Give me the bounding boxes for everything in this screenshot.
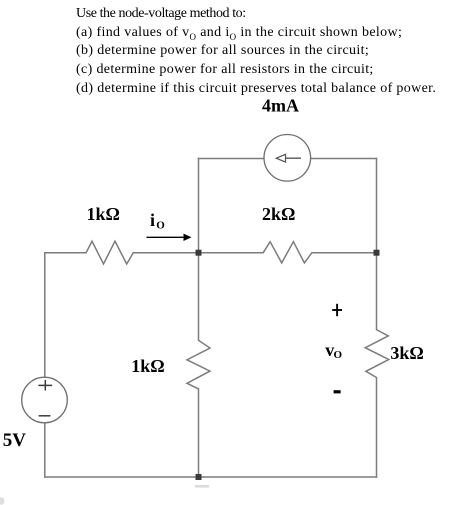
svg-text:2kΩ: 2kΩ: [262, 204, 295, 224]
svg-text:4mA: 4mA: [262, 95, 299, 115]
svg-text:3kΩ: 3kΩ: [390, 343, 423, 363]
svg-text:1kΩ: 1kΩ: [87, 204, 120, 224]
svg-text:O: O: [156, 220, 165, 232]
svg-text:1kΩ: 1kΩ: [131, 356, 164, 376]
svg-text:i: i: [150, 210, 155, 230]
svg-text:O: O: [334, 349, 343, 361]
svg-text:5V: 5V: [3, 430, 27, 451]
